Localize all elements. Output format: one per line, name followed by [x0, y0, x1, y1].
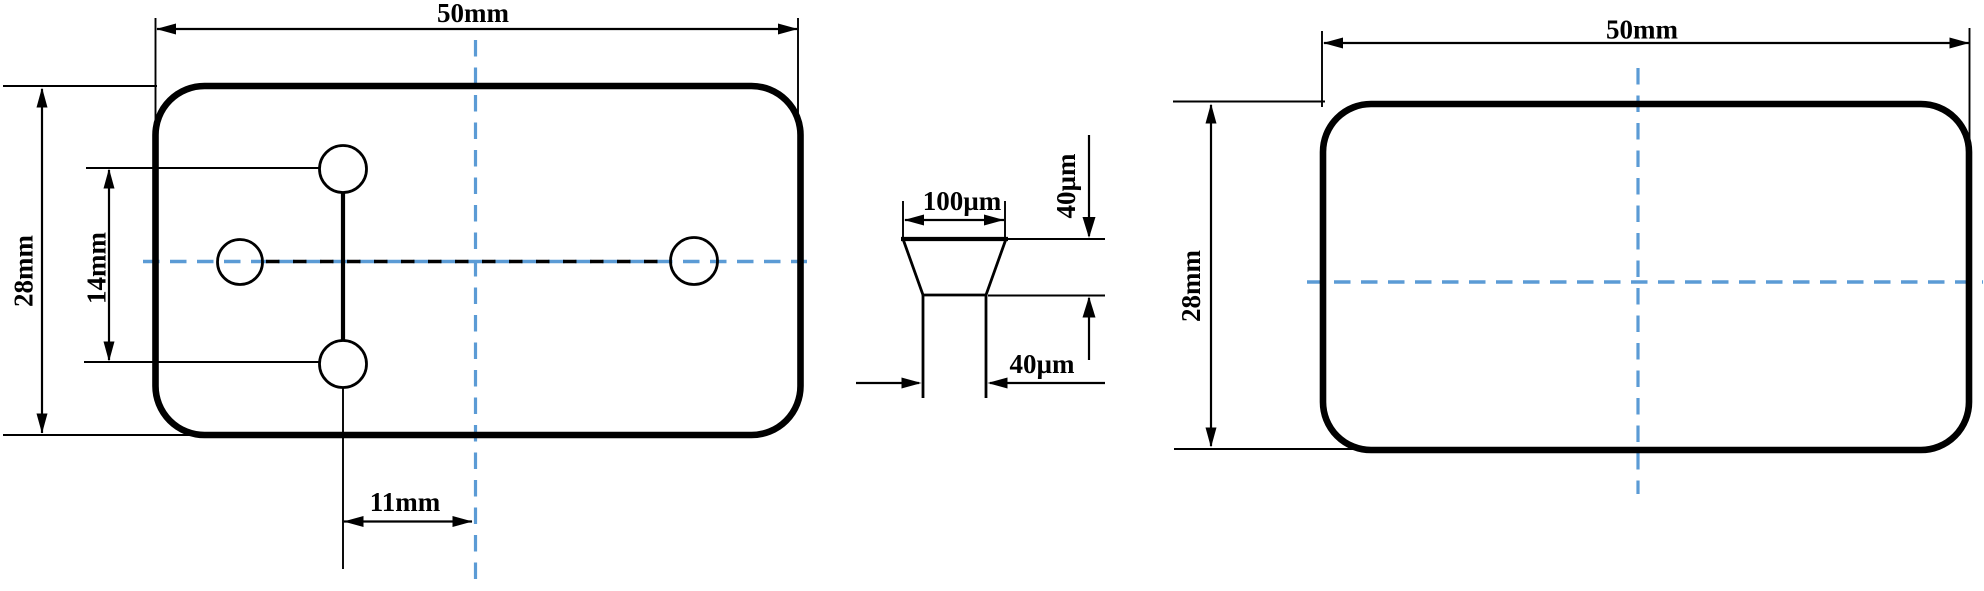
dimension 40um depth: upper dimension line with down arrow: [1083, 135, 1096, 238]
dimension 40um depth: lower dimension line with up arrow: [1083, 297, 1096, 361]
chip body outline (right, rounded rectangle): [1323, 104, 1969, 450]
dimension 50mm (right fig): extension line right: [1969, 28, 1971, 142]
dimension 50mm (right fig): dimension line with arrowheads: [1323, 38, 1970, 49]
port circle bottom: [320, 341, 367, 388]
svg-text:40µm: 40µm: [1009, 349, 1075, 379]
dimension 28mm (left fig): dimension line with arrowheads: [37, 88, 48, 434]
dimension 28mm (right fig): extension line top: [1173, 101, 1325, 103]
dimension 11mm: label: [370, 487, 441, 517]
svg-text:28mm: 28mm: [9, 235, 39, 307]
dimension 28mm (left fig): label (rotated): [9, 235, 39, 307]
dimension 50mm (right fig): extension line left: [1321, 31, 1323, 107]
dimension 50mm (left fig): dimension line with arrowheads: [156, 24, 798, 35]
centerline vertical (right chip, blue dashed): [1636, 68, 1639, 494]
dimension 28mm (right fig): extension line bottom: [1174, 448, 1357, 450]
dimension 11mm: leader line down from bottom port: [342, 388, 344, 569]
dimension 14mm: label (rotated): [82, 232, 112, 304]
dimension 14mm: extension line top (to top port): [86, 167, 319, 169]
port circle right: [671, 238, 718, 285]
svg-text:40µm: 40µm: [1051, 153, 1081, 219]
centerline vertical (left chip, blue dashed): [474, 40, 477, 586]
vertical channel segment between top and bottom ports: [341, 193, 345, 342]
dimension 40um width: label: [1009, 349, 1075, 379]
svg-text:100µm: 100µm: [923, 186, 1002, 216]
svg-text:50mm: 50mm: [1606, 15, 1678, 45]
svg-text:28mm: 28mm: [1176, 250, 1206, 322]
dimension 100um: tick left: [902, 201, 904, 238]
dimension 14mm: dimension line with arrowheads: [104, 169, 115, 362]
dimension 50mm (left fig): label: [437, 0, 509, 28]
dimension 40um width: left dimension line with right arrow: [856, 378, 922, 389]
dimension 100um: label: [923, 186, 1002, 216]
dimension 28mm (left fig): extension line top: [3, 85, 157, 87]
dimension 50mm (left fig): extension line right: [797, 18, 799, 118]
dimension 40um width: right dimension line with left arrow: [988, 378, 1106, 389]
centerline horizontal (right chip, blue dashed): [1307, 280, 1983, 283]
dimension 40um depth: label (rotated): [1051, 153, 1081, 219]
centerline horizontal (left chip, blue dashed): [143, 260, 807, 263]
dimension 28mm (right fig): label (rotated): [1176, 250, 1206, 322]
dimension 14mm: extension line bottom (to bottom port): [84, 361, 321, 363]
port circle top: [320, 146, 367, 193]
svg-text:14mm: 14mm: [82, 232, 112, 304]
channel cross-section trapezoid: [901, 239, 1008, 295]
svg-text:11mm: 11mm: [370, 487, 441, 517]
dimension 40um depth: extension line at bottom edge: [988, 295, 1105, 297]
dimension 50mm (right fig): label: [1606, 15, 1678, 45]
dimension 40um depth: extension line at top edge: [1008, 238, 1105, 240]
dimension 100um: dimension line with arrowheads: [904, 215, 1004, 226]
dimension 11mm: dimension line with arrowheads: [344, 516, 473, 527]
dimension 28mm (left fig): extension line bottom: [3, 434, 190, 436]
channel side wall right (below trapezoid): [985, 295, 988, 398]
svg-text:50mm: 50mm: [437, 0, 509, 28]
dimension 28mm (right fig): dimension line with arrowheads: [1206, 104, 1217, 448]
port circle left: [218, 240, 263, 285]
chip body outline (left, rounded rectangle): [156, 86, 801, 435]
dimension 100um: tick right: [1004, 201, 1006, 238]
channel side wall left (below trapezoid): [922, 295, 925, 398]
dimension 50mm (left fig): extension line left: [155, 18, 157, 122]
microchannel (black dashed horizontal): [263, 260, 670, 264]
